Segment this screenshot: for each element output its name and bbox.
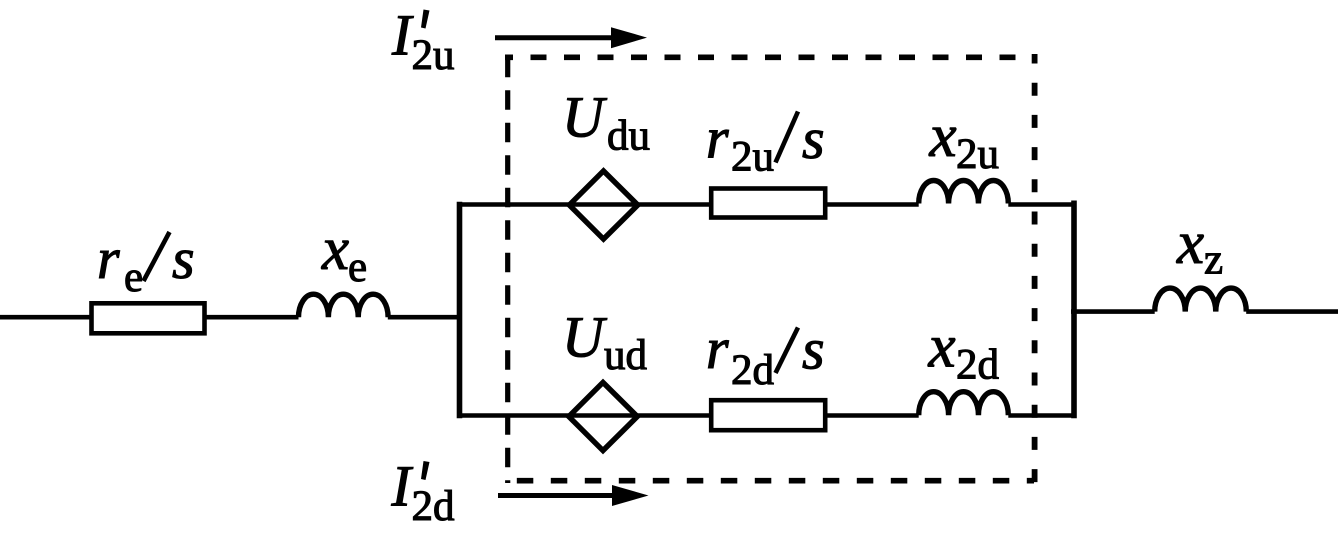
svg-text:2u: 2u [731, 133, 774, 180]
source Uud diamond [569, 382, 638, 450]
source Udu diamond [569, 171, 638, 239]
svg-text:s: s [802, 106, 825, 171]
svg-text:du: du [607, 113, 650, 160]
node bus left vertical [457, 202, 463, 419]
svg-text:2d: 2d [412, 483, 455, 530]
wire upper branch right [1008, 202, 1076, 207]
label r_e/s [97, 226, 195, 301]
dashed box top [505, 54, 1034, 60]
label r_2u/s [706, 105, 825, 180]
node bus right vertical [1071, 201, 1077, 419]
svg-text:2d: 2d [731, 347, 774, 394]
dashed box left [505, 55, 510, 484]
wire upper branch [457, 202, 919, 207]
inductor xz [1155, 288, 1247, 312]
svg-text:x: x [321, 216, 349, 283]
inductor xe [299, 294, 389, 317]
svg-text:e: e [124, 254, 143, 301]
wire left to bus [388, 315, 462, 320]
svg-text:r: r [97, 226, 120, 291]
label I'_2d [391, 454, 455, 531]
label r_2d/s [706, 316, 825, 394]
label U_ud [562, 304, 647, 379]
label U_du [562, 85, 650, 160]
svg-text:r: r [706, 316, 729, 381]
arrow current I2u [495, 27, 647, 48]
dashed box bottom [505, 478, 1034, 484]
wire mask under x2u [920, 206, 1006, 218]
svg-text:2u: 2u [956, 131, 999, 178]
label x_2u [929, 103, 1000, 178]
svg-text:2u: 2u [412, 32, 455, 79]
inductor x2d [919, 392, 1009, 416]
wire input left [0, 315, 299, 320]
wire mask under xe [300, 320, 386, 332]
resistor R2u box [711, 189, 825, 218]
svg-text:z: z [1204, 237, 1223, 284]
svg-text:s: s [802, 317, 825, 382]
svg-text:x: x [1176, 210, 1204, 277]
label x_z [1176, 210, 1223, 284]
wire output [1071, 309, 1155, 314]
resistor Re box [92, 303, 205, 333]
svg-text:r: r [706, 105, 729, 170]
arrow current I2d [498, 485, 649, 506]
wire lower branch [457, 413, 919, 418]
svg-text:U: U [562, 85, 608, 150]
dashed box right [1032, 54, 1038, 483]
svg-text:s: s [172, 226, 195, 291]
resistor R2d box [711, 400, 825, 430]
svg-text:2d: 2d [956, 342, 999, 389]
wire lower branch right [1008, 413, 1076, 418]
label I'_2u [391, 3, 455, 80]
svg-text:x: x [928, 314, 956, 381]
svg-text:ud: ud [604, 332, 647, 379]
svg-text:I: I [391, 454, 414, 519]
inductor x2u [919, 180, 1009, 203]
label x_2d [928, 314, 1000, 389]
wire mask under x2d [920, 418, 1006, 430]
svg-text:U: U [562, 304, 608, 369]
svg-text:e: e [348, 244, 367, 291]
wire mask under xz [1156, 314, 1243, 326]
wire output right [1246, 309, 1338, 314]
svg-text:x: x [929, 103, 957, 170]
label x_e [321, 216, 367, 291]
